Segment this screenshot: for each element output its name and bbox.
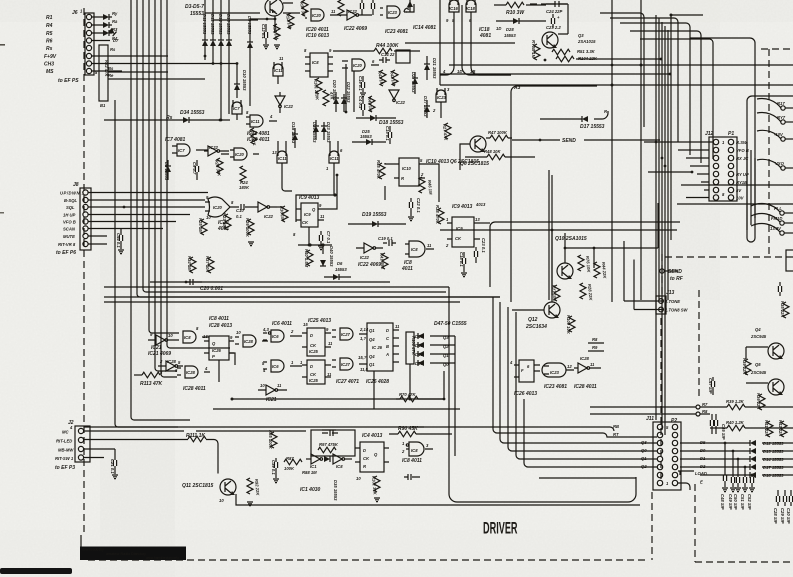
wire logic low2 — [213, 408, 460, 410]
wire IC9a wrap — [296, 195, 335, 222]
svg-text:C21 0.1: C21 0.1 — [110, 459, 115, 474]
label J8 pins — [56, 191, 85, 257]
wire mid h5 — [681, 184, 793, 186]
svg-text:IC23: IC23 — [550, 370, 560, 375]
resistor R51 — [552, 49, 596, 55]
wire IC9a q link — [324, 176, 337, 209]
svg-text:R38 470K: R38 470K — [435, 205, 440, 225]
wire staircase r4 — [630, 31, 701, 163]
ground R102 — [374, 498, 380, 502]
wire IC22d up — [277, 206, 282, 208]
diode D8 — [164, 160, 171, 181]
resistor R41 22K b — [764, 420, 773, 438]
svg-text:J11: J11 — [646, 416, 654, 422]
label Q3 — [577, 33, 596, 44]
wire dashed bottom right horizontal — [695, 561, 793, 563]
label diode nets — [108, 36, 118, 78]
svg-text:D19 15553: D19 15553 — [362, 212, 387, 218]
svg-text:to EF P3: to EF P3 — [55, 465, 75, 471]
svg-text:R.SW: R.SW — [736, 140, 748, 145]
svg-text:IC20: IC20 — [312, 13, 322, 18]
svg-text:11: 11 — [590, 362, 595, 367]
wire bundle v7 — [160, 0, 162, 374]
wire J8 row3 — [88, 206, 205, 208]
label IC27 4071 IC26 4028 — [336, 379, 389, 385]
svg-text:IC26: IC26 — [212, 348, 222, 353]
svg-text:VFO B: VFO B — [63, 220, 76, 225]
svg-text:2SA1015: 2SA1015 — [577, 39, 596, 44]
svg-text:IC22: IC22 — [264, 214, 274, 219]
corner black mark — [0, 568, 72, 574]
diode D18 row — [700, 472, 793, 478]
wire right verticals d — [658, 18, 660, 300]
capacitor C23 0.1 — [474, 238, 486, 263]
junction IC9a wrap — [333, 193, 336, 196]
wire dashed vertical right-mid — [661, 254, 663, 294]
wire bundle bend b7 — [161, 374, 177, 377]
ground C52 — [749, 488, 755, 492]
svg-text:4013: 4013 — [475, 202, 486, 207]
resistor R102 47K — [323, 90, 335, 106]
wire R45 link — [385, 163, 394, 200]
wire x612 extend — [611, 240, 613, 302]
svg-text:R35 22K: R35 22K — [780, 301, 785, 319]
wire mid h3 — [440, 229, 677, 231]
svg-text:C47 SIP: C47 SIP — [708, 378, 713, 394]
terminal VXO — [757, 159, 793, 170]
svg-text:IC8 4011: IC8 4011 — [402, 458, 422, 464]
svg-text:IC21: IC21 — [266, 397, 277, 403]
svg-text:IC28 4011: IC28 4011 — [574, 384, 597, 390]
capacitor C10 0.1 — [236, 204, 249, 219]
gate IC8 b — [401, 241, 434, 272]
svg-text:2SC945: 2SC945 — [750, 370, 767, 375]
svg-text:15,?: 15,? — [358, 355, 367, 360]
label D3-D5 — [185, 4, 204, 17]
svg-text:R111 1K: R111 1K — [186, 433, 205, 439]
svg-text:to EF P6: to EF P6 — [56, 250, 76, 256]
connector J6 — [72, 9, 98, 76]
svg-text:A: A — [385, 352, 389, 357]
wire bundle v6 — [154, 0, 156, 368]
svg-text:Q4: Q4 — [369, 354, 375, 359]
svg-text:Rs: Rs — [46, 46, 53, 52]
resistor R42 22K — [778, 420, 787, 438]
svg-text:SEND: SEND — [562, 138, 576, 144]
svg-text:Q0: Q0 — [443, 362, 449, 367]
svg-text:1B: 1B — [470, 69, 475, 74]
svg-text:www.hamdirectory.info: www.hamdirectory.info — [146, 556, 179, 560]
terminal 13.8V — [751, 223, 793, 235]
svg-text:C18 0.1: C18 0.1 — [459, 252, 464, 267]
svg-text:downloadedby: downloadedby — [82, 548, 104, 552]
gate IC16 — [446, 0, 459, 67]
svg-text:10: 10 — [219, 498, 224, 503]
junction logic — [443, 398, 446, 401]
svg-text:C7 0.1: C7 0.1 — [326, 231, 331, 244]
svg-text:RB: RB — [613, 424, 619, 429]
svg-text:amateur Radio Directory: amateur Radio Directory — [106, 552, 146, 556]
svg-text:J6: J6 — [72, 10, 78, 16]
svg-text:IC8: IC8 — [312, 60, 319, 65]
svg-text:100K: 100K — [284, 466, 295, 471]
junction y15 — [670, 14, 673, 17]
svg-text:11: 11 — [331, 9, 336, 14]
inverter IC21 b — [258, 383, 287, 403]
resistor RY0B 1M — [531, 40, 540, 60]
capacitor right edge — [778, 282, 781, 296]
svg-text:D14 15553: D14 15553 — [218, 14, 223, 35]
wire Q10 area — [555, 236, 587, 279]
svg-text:RY1B: RY1B — [736, 180, 747, 185]
flipflop IC9 b — [445, 204, 480, 248]
svg-text:IC28 4011: IC28 4011 — [183, 386, 206, 392]
wire mid h6 — [677, 203, 793, 205]
resistor R111 1K — [84, 433, 218, 474]
wire logic links — [219, 334, 410, 409]
svg-text:IC22: IC22 — [348, 9, 358, 14]
svg-text:CK: CK — [455, 236, 462, 241]
wire dashed vertical right upper — [698, 290, 700, 399]
svg-text:CH3: CH3 — [44, 62, 54, 68]
resistor R25 1M — [198, 218, 207, 235]
svg-text:R4: R4 — [46, 23, 53, 29]
svg-text:RY0B 1M: RY0B 1M — [531, 40, 536, 59]
diode D15 — [226, 0, 232, 106]
capacitor Ctop1 — [360, 0, 363, 15]
svg-text:MS: MS — [46, 69, 54, 75]
svg-text:SCAN: SCAN — [63, 227, 76, 232]
capacitor C17 — [358, 96, 365, 116]
wire diode bus — [454, 336, 456, 456]
box right edge partial — [786, 250, 793, 271]
wire J8 row7 — [88, 235, 107, 237]
wire nested feed Q3 — [500, 302, 657, 443]
svg-text:IC23 4081: IC23 4081 — [385, 29, 408, 35]
svg-text:10: 10 — [356, 476, 361, 481]
svg-text:2.TONE: 2.TONE — [664, 299, 680, 304]
svg-text:D47-50 C1555: D47-50 C1555 — [434, 321, 467, 327]
svg-text:Q3: Q3 — [443, 335, 449, 340]
svg-text:RIT-SW 1: RIT-SW 1 — [55, 456, 74, 461]
svg-text:13: 13 — [272, 150, 277, 155]
left edge tick a — [0, 44, 5, 46]
wire nested feed Q2 — [524, 399, 657, 467]
svg-text:R45 470K: R45 470K — [376, 160, 381, 180]
svg-text:IC6 4011: IC6 4011 — [272, 321, 292, 327]
svg-text:Q6 2SC1815: Q6 2SC1815 — [450, 159, 479, 165]
svg-text:to EF PS: to EF PS — [58, 78, 79, 84]
wire J8 row8 — [88, 243, 107, 245]
resistor R70 47K b — [396, 392, 444, 402]
svg-text:D9 15553: D9 15553 — [247, 16, 252, 35]
resistor R22 47K — [99, 45, 109, 108]
wire nested feed Q1 — [516, 312, 657, 459]
svg-text:C9 4.7: C9 4.7 — [192, 162, 197, 175]
wire J12 feeds — [644, 142, 713, 198]
wire bundle v1 — [115, 100, 178, 427]
svg-text:B: B — [386, 344, 389, 349]
diode D13 row — [680, 448, 793, 454]
big loop wire around DRIVER — [449, 287, 636, 502]
terminal R17 — [757, 98, 793, 110]
label IC1 4030 — [300, 480, 338, 501]
wire A3 horiz — [517, 85, 597, 87]
block IC26 — [367, 323, 400, 371]
wire dashed border bottom left — [88, 559, 648, 561]
resistor R104 — [556, 56, 598, 62]
svg-text:C12 0.1: C12 0.1 — [261, 24, 266, 39]
resistor R2 vertical top — [338, 0, 344, 20]
svg-text:R8: R8 — [702, 409, 708, 414]
capacitor C52 SIP — [747, 474, 754, 510]
svg-text:D18 15553: D18 15553 — [379, 120, 404, 126]
svg-text:IC10 6013: IC10 6013 — [306, 33, 329, 39]
wire A3 bend — [511, 85, 521, 302]
svg-text:IC 26: IC 26 — [372, 345, 383, 350]
junction bus right dots — [611, 64, 643, 87]
svg-text:R65 100K: R65 100K — [268, 430, 273, 450]
svg-text:RT: RT — [613, 432, 619, 437]
svg-text:IC9 4013: IC9 4013 — [299, 195, 320, 201]
wire logic low — [232, 371, 444, 399]
svg-text:UP/DWN 1: UP/DWN 1 — [60, 191, 85, 196]
resistor R12 1M — [285, 13, 294, 29]
wire bundle v3 — [137, 0, 500, 297]
svg-text:Q11 2SC1815: Q11 2SC1815 — [182, 483, 214, 489]
svg-text:C23 2.2: C23 2.2 — [546, 25, 561, 30]
gate IC7 — [232, 100, 242, 120]
svg-text:R87: R87 — [286, 456, 294, 461]
wire J8 row1 — [88, 192, 208, 194]
junction dots diode row — [204, 55, 223, 65]
svg-text:11: 11 — [327, 372, 332, 377]
capacitor C14 22 — [379, 52, 395, 63]
svg-text:13: 13 — [203, 334, 208, 339]
svg-text:D22 15553: D22 15553 — [346, 82, 351, 103]
ground C50 — [735, 488, 741, 492]
capacitor C19 0.1 — [378, 236, 396, 246]
ground C7 — [318, 246, 324, 250]
junction logic links — [231, 398, 412, 401]
resistor R106 47K — [406, 332, 416, 372]
wire RB long — [413, 427, 614, 431]
wire dashed vertical center-bottom — [651, 492, 653, 560]
svg-text:R34 1M: R34 1M — [187, 256, 192, 271]
svg-text:IC22: IC22 — [360, 255, 370, 260]
wire bundle v4 — [143, 0, 446, 292]
inverter IC22 e — [356, 243, 383, 268]
svg-text:Q1: Q1 — [369, 328, 375, 333]
svg-text:SQL: SQL — [66, 205, 75, 210]
wire dashed top right corner — [768, 49, 770, 258]
gate IC18 — [466, 0, 476, 67]
svg-text:RIT-VR 8: RIT-VR 8 — [58, 242, 76, 247]
svg-text:C15 0.1: C15 0.1 — [385, 126, 390, 141]
wire mid horizontals — [495, 221, 680, 223]
transistor Q1 top — [265, 0, 283, 16]
diode D17 — [540, 109, 608, 130]
svg-text:IC21 4069: IC21 4069 — [148, 351, 171, 357]
diode D50 — [415, 360, 455, 367]
wire Re row — [108, 78, 150, 80]
diode D40 — [320, 246, 334, 267]
svg-text:IC23: IC23 — [437, 95, 447, 100]
wire top q — [266, 3, 293, 31]
svg-text:CK: CK — [302, 220, 309, 225]
label IC23 IC28 — [544, 384, 597, 390]
svg-text:IC27 4071: IC27 4071 — [336, 379, 359, 385]
inverter IC8 f — [333, 454, 352, 469]
resistor R109 10K — [566, 315, 575, 335]
resistor R34 1M — [187, 256, 196, 273]
svg-text:D: D — [310, 333, 313, 338]
svg-text:IC28: IC28 — [186, 370, 196, 375]
diode D23 — [321, 122, 331, 143]
wire right verticals h — [670, 15, 672, 240]
svg-text:J13: J13 — [666, 290, 675, 296]
svg-text:D1B 15553: D1B 15553 — [291, 122, 296, 144]
wire long low4 — [104, 301, 460, 303]
svg-text:C20 0.001: C20 0.001 — [200, 286, 223, 292]
svg-text:C30 SIP: C30 SIP — [786, 508, 791, 524]
svg-text:IC28: IC28 — [167, 359, 177, 364]
resistor R76 10K — [578, 255, 592, 274]
diode D9 — [247, 16, 276, 106]
wire right verticals b — [640, 0, 642, 300]
svg-text:R47 100K: R47 100K — [488, 130, 508, 135]
svg-text:D: D — [310, 364, 313, 369]
junction stubs — [220, 62, 239, 121]
svg-text:IC8: IC8 — [184, 335, 191, 340]
wire CH3 row — [92, 63, 237, 65]
resistor R90 45K — [389, 426, 452, 437]
diode D7 — [108, 28, 119, 43]
resistor R43 1K — [377, 70, 386, 86]
wire gates out bends — [462, 5, 511, 75]
diode D27 — [411, 72, 418, 94]
capacitor C7 0.1 — [319, 231, 331, 245]
svg-text:C22 0.1: C22 0.1 — [416, 198, 421, 213]
wire nested feed RT — [493, 297, 657, 437]
svg-text:D23 15553: D23 15553 — [326, 122, 331, 143]
terminal R7 — [590, 402, 710, 409]
svg-text:11: 11 — [279, 56, 284, 61]
svg-text:180K: 180K — [239, 185, 250, 190]
capacitor C18 0.1 — [459, 252, 466, 272]
resistor R27 47K — [442, 123, 451, 142]
svg-text:Q12: Q12 — [528, 317, 538, 323]
svg-text:R23 1M: R23 1M — [222, 213, 227, 228]
svg-text:MUTE: MUTE — [63, 234, 75, 239]
svg-text:D28: D28 — [506, 27, 514, 32]
svg-text:IC22: IC22 — [209, 145, 219, 150]
diode D12 — [210, 0, 216, 64]
svg-text:IC11: IC11 — [278, 156, 287, 161]
gate IC23 top — [380, 4, 414, 18]
box feedback — [311, 430, 355, 456]
svg-text:IC23: IC23 — [388, 10, 398, 15]
capacitor C12 0.1 — [261, 24, 268, 44]
svg-text:10V: 10V — [736, 196, 745, 201]
wire right verticals f — [664, 26, 666, 435]
svg-text:B1: B1 — [100, 103, 106, 108]
ground C51 — [742, 488, 748, 492]
svg-text:1,?: 1,? — [360, 336, 366, 341]
resistor R44 22K — [594, 262, 608, 280]
wire nested feed Q0 — [508, 307, 657, 451]
svg-text:IC11: IC11 — [251, 119, 260, 124]
wire dashed mid right horizontal — [665, 256, 793, 258]
svg-text:0.1: 0.1 — [236, 214, 242, 219]
resistor R26 100K — [245, 218, 254, 238]
svg-text:Q1: Q1 — [369, 362, 375, 367]
diode D49 — [415, 351, 455, 358]
svg-text:2SC945: 2SC945 — [750, 334, 767, 339]
svg-text:C14 22: C14 22 — [381, 52, 395, 57]
svg-text:R36 22K: R36 22K — [756, 393, 761, 411]
svg-text:1H UP: 1H UP — [63, 213, 76, 218]
capacitor C21 0.1 — [110, 449, 117, 474]
gate IC6 a — [262, 327, 296, 342]
ground R92 — [247, 502, 253, 506]
junction c2 — [336, 111, 348, 177]
wire dashed top right horizontal — [761, 48, 793, 50]
junction bus dots — [544, 58, 672, 76]
wire Bs row — [108, 71, 168, 73]
svg-text:C50 SIP: C50 SIP — [733, 494, 738, 510]
svg-text:D15 15553: D15 15553 — [226, 14, 231, 35]
resistor R77 10K — [551, 285, 560, 303]
terminal PLL — [751, 203, 793, 215]
svg-text:D: D — [363, 448, 366, 453]
wire bundle bend b8 — [167, 345, 230, 348]
svg-text:IC9 4013: IC9 4013 — [452, 204, 473, 210]
inverter IC22 c — [275, 92, 294, 113]
resistor R102 33K — [371, 476, 380, 496]
svg-text:CK: CK — [310, 343, 317, 348]
inverter IC28 c — [158, 359, 183, 375]
wire bundle v8 — [166, 0, 168, 345]
svg-text:IC27: IC27 — [341, 332, 351, 337]
svg-text:IC22: IC22 — [284, 104, 294, 109]
connector J12 P1 — [705, 131, 737, 201]
svg-text:D34 15553: D34 15553 — [180, 110, 205, 116]
svg-text:C28 SIP: C28 SIP — [773, 508, 778, 524]
inverter IC28 e — [574, 356, 601, 373]
diode D17 row — [680, 464, 793, 470]
capacitor C49 SIP — [728, 450, 735, 510]
ground C48 — [722, 488, 728, 492]
wire staircase r1 — [600, 13, 644, 127]
diode D18 center — [356, 115, 404, 126]
resistor R48 10K — [465, 149, 535, 160]
flipflop IC25 a — [302, 322, 333, 356]
capacitor C51 SIP — [740, 466, 747, 510]
gate IC11 a — [246, 110, 277, 127]
pin labels bends — [442, 69, 475, 74]
wire bus r3 — [440, 73, 670, 75]
svg-text:IC4 4013: IC4 4013 — [362, 433, 383, 439]
wire bus y245 — [298, 244, 332, 246]
wire J2 bottom — [253, 504, 640, 506]
wire D5 row — [92, 32, 112, 34]
wire right verticals g — [667, 30, 669, 300]
gate IC28 b — [235, 330, 268, 347]
svg-text:E: E — [700, 480, 703, 485]
wire J8 row5 — [88, 221, 176, 223]
svg-text:IC20: IC20 — [235, 152, 245, 157]
